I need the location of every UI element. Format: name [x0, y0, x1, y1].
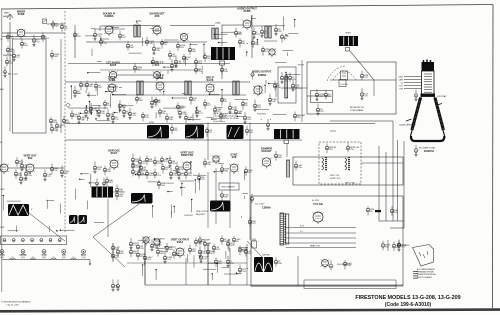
- wire secondary 5: [286, 247, 356, 249]
- svg-text:C63: C63: [247, 119, 252, 121]
- svg-text:QUAD: QUAD: [215, 22, 221, 25]
- waveform photo vert sawtooth: [8, 204, 29, 216]
- resistor R98 vert out: [105, 177, 113, 187]
- terminal strip speaker: [413, 272, 418, 279]
- resistor R35 IF strip: [203, 99, 211, 109]
- svg-text:R3: R3: [164, 44, 167, 46]
- svg-text:R27: R27: [248, 172, 253, 174]
- svg-text:R23: R23: [120, 253, 125, 255]
- capacitor C51: [116, 280, 119, 291]
- svg-text:R17: R17: [107, 105, 112, 107]
- resistor R102: [116, 248, 124, 258]
- resistor R63 vert area: [131, 161, 139, 171]
- waveform photo pair B: [79, 215, 88, 224]
- ion trap magnet dashed arc: [333, 71, 356, 80]
- svg-text:R16: R16: [119, 196, 124, 198]
- box heater filter: [1, 236, 67, 245]
- svg-text:R31: R31: [180, 47, 185, 49]
- tube V11 6AU6 3rd IF: [205, 75, 214, 94]
- tube V6 6AV6 1st audio: [106, 60, 120, 80]
- wire flyback right edge: [107, 199, 109, 237]
- wire secondary 2: [286, 232, 356, 234]
- svg-text:117 V 60~: 117 V 60~: [255, 204, 266, 206]
- resistor R17: [280, 33, 289, 42]
- resistor R15: [260, 26, 268, 38]
- capacitor C84 IF second row: [141, 112, 149, 121]
- svg-text:(4,5): (4,5): [62, 257, 66, 259]
- wire audio coupling: [117, 74, 153, 76]
- svg-text:LIMITER: LIMITER: [262, 255, 270, 257]
- svg-text:R9: R9: [186, 59, 189, 61]
- svg-text:6S4: 6S4: [28, 156, 33, 160]
- resistor R49: [274, 151, 282, 161]
- svg-text:© by, Inc. 1955: © by, Inc. 1955: [6, 304, 19, 307]
- svg-text:R23: R23: [329, 149, 334, 151]
- resistor R9: [176, 41, 185, 51]
- resistor R113 sync area: [165, 243, 173, 253]
- junction thick mark: [375, 210, 381, 212]
- wire sound B+ rail: [95, 28, 125, 30]
- svg-text:6CB6: 6CB6: [109, 78, 116, 82]
- tube V8 rectifier half: [268, 49, 276, 58]
- capacitor C9: [152, 43, 161, 55]
- capacitor C62 can: [387, 240, 389, 251]
- tube V12 video amp 6AW8: [253, 86, 263, 97]
- small box damper: [339, 80, 346, 87]
- wire rail join 2: [390, 227, 404, 229]
- enclosure power supply: [251, 196, 403, 286]
- capacitor C8: [126, 41, 134, 51]
- svg-text:R42: R42: [139, 100, 144, 102]
- deflection yoke dashed box: [319, 142, 361, 184]
- capacitor C41 heater filter: [12, 239, 15, 242]
- svg-text:R8: R8: [162, 113, 165, 115]
- resistor R30 IF strip: [150, 96, 158, 108]
- resistor R96 vert out: [93, 162, 102, 174]
- tube V22 6S4A vert: [171, 237, 190, 258]
- svg-text:FIRESTONE MODELS 13-G-208, 13-: FIRESTONE MODELS 13-G-208, 13-G-209: [355, 295, 460, 301]
- brightness pot R46: [293, 112, 306, 122]
- tube V3 6U8 sound det: [149, 11, 165, 36]
- svg-text:R12: R12: [145, 117, 150, 119]
- CRT grid pin 2 wire: [404, 79, 422, 81]
- CRT neck: [422, 71, 435, 95]
- wire sync rail under blobs: [65, 139, 302, 141]
- resistor R12: [203, 53, 212, 63]
- wire link sync horiz: [127, 262, 247, 264]
- CRT yoke hatching right: [435, 98, 444, 131]
- note polygon tolerance: [413, 245, 434, 267]
- wire drop sync 2: [185, 258, 187, 285]
- wire mesh sound strip: [85, 27, 248, 74]
- capacitor C10: [168, 50, 176, 60]
- svg-text:C69: C69: [278, 31, 283, 33]
- resistor R41 IF strip: [106, 109, 114, 121]
- wire drop yoke plug: [286, 144, 288, 158]
- waveform photo hor osc: [210, 201, 231, 212]
- capacitor C96 audio sub: [220, 65, 228, 75]
- resistor R69 vert area: [168, 156, 176, 168]
- svg-text:R38: R38: [278, 263, 283, 265]
- svg-text:5Y3 GB: 5Y3 GB: [313, 202, 322, 206]
- svg-text:C2806A: C2806A: [262, 207, 271, 210]
- wire tuner inner vertical: [60, 39, 62, 133]
- svg-text:R21: R21: [297, 117, 302, 119]
- capacitor C11: [170, 59, 178, 71]
- CRT grid pin 5 wire: [404, 88, 422, 90]
- resistor R82: [220, 191, 229, 201]
- resistor R127 sync area: [136, 251, 145, 260]
- capacitor C22: [266, 119, 269, 130]
- wire top rail seg2: [170, 24, 215, 26]
- wire drop blob2: [194, 139, 196, 141]
- svg-text:G2: G2: [401, 82, 403, 84]
- transformer T1 4.5MC sound take-off: [134, 22, 140, 38]
- wire vert yoke line: [113, 191, 125, 193]
- svg-text:C50: C50: [277, 87, 282, 89]
- resistor R47: [205, 127, 212, 136]
- svg-text:C68: C68: [126, 113, 131, 115]
- capacitor C14: [252, 27, 260, 39]
- tube V14 6SN7 vert osc: [180, 150, 193, 172]
- resistor R43e: [291, 79, 300, 91]
- waveform photo power ripple: [254, 257, 273, 272]
- resistor R129 sync area: [156, 247, 169, 257]
- resistor R20 IF strip: [79, 81, 87, 90]
- svg-text:R2: R2: [158, 102, 161, 104]
- svg-text:R41: R41: [248, 253, 253, 255]
- svg-text:C78: C78: [132, 115, 137, 117]
- waveform photo sync sep: [185, 125, 204, 139]
- resistor R121 sync area: [220, 235, 228, 245]
- svg-text:C64: C64: [122, 107, 127, 109]
- svg-text:R34: R34: [192, 51, 197, 53]
- resistor R8: [160, 39, 168, 48]
- resistor R123 sync area: [232, 236, 241, 245]
- resistor R32 IF strip: [176, 103, 184, 113]
- resistor R150: [398, 240, 401, 249]
- capacitor C43 heater filter: [31, 239, 34, 242]
- resistor R22 IF strip: [94, 82, 102, 92]
- wire line cord diagonal: [247, 241, 262, 257]
- svg-text:(3,4): (3,4): [0, 257, 4, 259]
- svg-text:C60: C60: [156, 50, 161, 52]
- svg-text:YOKE FRAME: YOKE FRAME: [350, 109, 364, 112]
- resistor R125 sync area: [244, 247, 252, 257]
- capacitor C6 ant: [3, 66, 6, 77]
- interlock: [248, 217, 256, 227]
- CRT designator circle: [414, 145, 418, 157]
- waveform photo vert osc: [131, 193, 153, 204]
- svg-text:(Code 199-6-A3010): (Code 199-6-A3010): [385, 302, 432, 308]
- wire diagonal heater: [93, 237, 125, 267]
- wire right border: [492, 5, 495, 309]
- svg-text:TO: TO: [0, 39, 3, 41]
- resistor R43: [253, 100, 261, 112]
- waveform photo pair A: [69, 215, 78, 224]
- svg-text:R43: R43: [54, 56, 59, 58]
- svg-text:C87: C87: [174, 67, 179, 69]
- shield dashed tuner boundary: [64, 11, 66, 122]
- wire top rail seg1: [100, 25, 160, 27]
- wire HV rail 2: [397, 140, 399, 221]
- capacitor C60 filter: [381, 241, 390, 251]
- ion trap adj: [414, 90, 417, 101]
- svg-text:21DEP4A: 21DEP4A: [424, 150, 435, 153]
- svg-text:FOCUS: FOCUS: [341, 84, 349, 86]
- transformer T2 quad coil: [212, 28, 218, 39]
- svg-text:Octale Section: Octale Section: [213, 120, 225, 123]
- capacitor C46 heater filter: [58, 239, 61, 242]
- svg-text:R9: R9: [236, 241, 239, 243]
- enclosure tuner box: [13, 39, 47, 133]
- tube V4 6T8 discriminator: [180, 33, 189, 42]
- svg-text:R22: R22: [98, 87, 103, 89]
- resistor R34 IF strip: [189, 95, 197, 104]
- wire HV rail 1: [392, 121, 394, 221]
- svg-text:R2: R2: [245, 105, 248, 107]
- resistor R65 vert area: [131, 167, 140, 177]
- resistor R118 sync area: [212, 244, 220, 253]
- tube heater symbol 6AU6: [82, 250, 86, 254]
- svg-text:R15: R15: [216, 249, 221, 251]
- svg-text:C87: C87: [320, 111, 325, 113]
- capacitor C86 IF second row: [165, 113, 174, 123]
- resistor R79 vert area: [244, 166, 253, 176]
- capacitor C90 IF second row: [234, 108, 243, 117]
- svg-text:R43: R43: [169, 249, 174, 251]
- box vert linearity: [219, 183, 239, 190]
- plug P1: [250, 194, 253, 203]
- svg-text:(3,4): (3,4): [42, 257, 46, 259]
- svg-text:MOUNTED ON: MOUNTED ON: [350, 107, 364, 109]
- wire secondary 3: [286, 237, 356, 239]
- wire mesh bottom center: [133, 238, 248, 280]
- wire antenna input: [2, 32, 17, 34]
- svg-text:3.9: 3.9: [72, 257, 74, 259]
- resistor R120 sync area: [206, 247, 215, 257]
- resistor R10: [188, 45, 196, 55]
- resistor R140: [343, 260, 352, 269]
- capacitor C20: [316, 103, 324, 115]
- resistor R61 vert area: [138, 156, 146, 168]
- transformer T4 sound output shielded: [339, 36, 358, 46]
- resistor R116 sync area: [194, 237, 202, 247]
- svg-text:C87: C87: [154, 104, 159, 106]
- capacitor C92 tuner corner: [50, 124, 58, 134]
- svg-text:R5: R5: [59, 127, 62, 129]
- wire vert out link: [8, 167, 26, 169]
- tube V24 thermistor: [321, 259, 330, 268]
- svg-text:R1: R1: [265, 51, 268, 53]
- transformer T3 audio output (shielded): [211, 47, 235, 60]
- resistor R43c: [288, 72, 296, 82]
- wire HV rail 3: [403, 141, 405, 228]
- peaking coil L2 winding: [285, 76, 288, 98]
- capacitor C90 ant: [12, 50, 21, 62]
- capacitor C91 tuner corner: [55, 122, 64, 131]
- svg-text:B+ 325V: B+ 325V: [312, 200, 320, 202]
- wire audio sub row a: [68, 63, 230, 65]
- svg-text:R5: R5: [284, 38, 287, 40]
- resistor R141: [274, 257, 282, 267]
- wire drop sync 3: [207, 243, 209, 285]
- tube heater symbol 6CB6: [0, 250, 4, 254]
- wire center vertical: [207, 243, 209, 285]
- plug interlock symbol: [252, 239, 257, 249]
- transformer T10 power winding: [280, 213, 289, 245]
- svg-text:R26: R26: [224, 197, 229, 199]
- svg-text:R32: R32: [218, 263, 223, 265]
- wire video bus vertical: [301, 60, 303, 122]
- CRT bottom band: [411, 136, 444, 141]
- wire drop sync 4: [229, 248, 231, 285]
- svg-text:ION TRAP: ION TRAP: [437, 95, 447, 98]
- svg-text:Ant. Lead: Ant. Lead: [8, 73, 18, 76]
- choke heater bump at 33: [30, 258, 36, 259]
- wire rail join 1: [379, 220, 404, 222]
- resistor R124 sync area: [238, 245, 247, 255]
- wire drop blob3: [234, 139, 236, 140]
- resistor R97 vert out: [103, 166, 112, 175]
- tube V23 5Y3 rectifier: [313, 202, 324, 224]
- capacitor C53: [238, 265, 247, 275]
- wire audio output plate: [221, 25, 223, 47]
- svg-text:6AW8A: 6AW8A: [105, 14, 114, 18]
- svg-text:C57: C57: [47, 176, 52, 178]
- capacitor C24: [366, 206, 375, 215]
- resistor R40 IF strip: [73, 86, 81, 98]
- svg-text:(3,4): (3,4): [82, 257, 86, 259]
- svg-text:C66: C66: [202, 253, 207, 255]
- tube V17 vert amp half: [0, 164, 9, 174]
- capacitor C89 IF second row: [219, 112, 227, 121]
- choke heater bump at 53.5: [51, 258, 57, 259]
- ion trap coil on neck: [421, 94, 436, 97]
- svg-text:R16: R16: [107, 171, 112, 173]
- wire yoke return: [361, 162, 403, 164]
- svg-text:C47: C47: [141, 175, 146, 177]
- capacitor C13: [238, 38, 245, 47]
- hold control R81: [157, 180, 174, 189]
- svg-text:R40: R40: [169, 119, 174, 121]
- svg-text:3.9: 3.9: [11, 257, 13, 259]
- resistor R14: [182, 54, 191, 63]
- CRT funnel: [410, 95, 444, 142]
- height control R131: [198, 236, 211, 246]
- resistor R43d: [273, 81, 281, 91]
- wire right bus from sound: [373, 80, 375, 96]
- resistor R43b: [280, 72, 288, 84]
- resistor R90 vert out: [15, 157, 23, 167]
- tube V7 6C4: [151, 60, 164, 80]
- svg-text:5 V: 5 V: [300, 231, 303, 233]
- svg-text:R33: R33: [224, 71, 229, 73]
- junction test point TP1: [66, 103, 70, 107]
- svg-text:C80: C80: [272, 101, 277, 103]
- capacitor C12: [151, 57, 159, 67]
- wire V1 plate: [25, 32, 65, 34]
- svg-text:VERT LINEARITY: VERT LINEARITY: [222, 186, 237, 189]
- svg-text:R20: R20: [207, 58, 212, 60]
- wire video to CRT: [265, 80, 267, 84]
- svg-text:R29: R29: [174, 130, 179, 132]
- resistor R24 IF strip: [89, 103, 98, 115]
- wire drop sync 1: [144, 244, 146, 285]
- capacitor C23: [294, 160, 303, 170]
- resistor R39 IF strip: [241, 100, 248, 109]
- CRT yoke hatching left: [412, 98, 421, 131]
- svg-text:R24: R24: [109, 182, 114, 184]
- resistor R170 tuner corner: [49, 117, 57, 126]
- resistor R1: [51, 20, 59, 30]
- resistor R95 vert out: [60, 165, 69, 177]
- resistor R60 vert area: [131, 154, 140, 166]
- svg-text:C83: C83: [257, 107, 262, 109]
- svg-text:6CB6: 6CB6: [18, 12, 25, 16]
- svg-text:R4: R4: [165, 169, 168, 171]
- wire drop blob1: [157, 139, 159, 141]
- resistor R112 sync area: [150, 239, 159, 251]
- svg-text:SPKR: SPKR: [345, 33, 351, 35]
- CRT anode arrow: [437, 104, 442, 106]
- svg-text:R4: R4: [207, 245, 210, 247]
- svg-text:C61: C61: [256, 34, 261, 36]
- svg-text:(4,5): (4,5): [21, 257, 25, 259]
- svg-text:6AW8A: 6AW8A: [258, 74, 267, 77]
- svg-text:HEAT 6.3V: HEAT 6.3V: [310, 245, 320, 248]
- resistor R16: [261, 46, 269, 55]
- resistor R21 IF strip: [85, 80, 94, 90]
- svg-text:DEFL YOKE: DEFL YOKE: [345, 183, 356, 185]
- resistor R62 vert area: [145, 156, 153, 166]
- wire diagonal vert feed: [93, 204, 139, 237]
- choke L1 filter: [265, 26, 271, 38]
- svg-text:R22: R22: [180, 108, 185, 110]
- resistor R75 vert area: [145, 170, 154, 180]
- svg-text:R12: R12: [164, 161, 169, 163]
- wire heater drop: [89, 260, 91, 264]
- svg-text:R6: R6: [193, 100, 196, 102]
- designator video output: [251, 70, 254, 79]
- svg-text:GLASS CAP|SHUNT: GLASS CAP|SHUNT: [399, 124, 417, 127]
- capacitor C85 IF second row: [158, 108, 166, 117]
- wire top border: [1, 5, 493, 10]
- box contrast control: [311, 91, 333, 103]
- wire left vert border of sync box: [144, 240, 146, 285]
- svg-text:3.9: 3.9: [32, 257, 34, 259]
- tube heater symbol 6U8: [62, 250, 66, 254]
- svg-text:3.9: 3.9: [52, 257, 54, 259]
- svg-text:HOR: HOR: [0, 227, 5, 229]
- svg-text:6U8: 6U8: [232, 155, 237, 159]
- svg-text:R1: R1: [209, 132, 212, 134]
- svg-text:R14: R14: [238, 113, 243, 115]
- tube V9 6CB6 1st IF: [107, 75, 116, 94]
- svg-text:R20: R20: [55, 26, 60, 28]
- svg-text:R22: R22: [149, 175, 154, 177]
- capacitor C21: [170, 124, 178, 134]
- svg-text:6CG7: 6CG7: [111, 151, 118, 155]
- resistor R119 sync area: [198, 246, 207, 258]
- svg-text:R39: R39: [207, 164, 212, 166]
- resistor R13: [234, 28, 242, 38]
- CRT grid pin 3 wire: [404, 82, 422, 84]
- svg-text:R34: R34: [385, 247, 390, 249]
- capacitor C80 IF second row: [70, 110, 78, 120]
- svg-text:R22: R22: [149, 161, 154, 163]
- tube V2 6AW8A sound IF amp: [103, 11, 116, 36]
